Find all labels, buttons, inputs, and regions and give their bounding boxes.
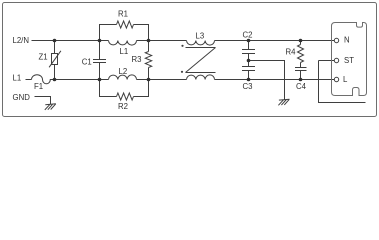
node C2/C3 mid — [247, 59, 251, 63]
junction dots — [53, 39, 303, 82]
svg-text:L1: L1 — [120, 47, 129, 56]
node C1 bottom — [98, 78, 102, 82]
choke L3 core lines — [186, 48, 216, 73]
ground (chassis, right) — [278, 99, 289, 105]
svg-text:C4: C4 — [296, 82, 307, 91]
resistor R3 (between rails) — [148, 41, 150, 80]
resistor R4 — [300, 41, 302, 68]
resistor R1 (top parallel loop) — [100, 25, 117, 41]
svg-text:L2/N: L2/N — [13, 36, 29, 45]
capacitor C3 — [242, 67, 255, 71]
svg-text:F1: F1 — [34, 82, 43, 91]
border frame — [3, 3, 377, 117]
wire top rail left — [32, 40, 109, 42]
svg-text:C2: C2 — [243, 31, 253, 40]
pin N — [334, 38, 338, 42]
resistor R2 (bottom parallel loop) — [100, 80, 117, 97]
svg-text:C3: C3 — [243, 82, 253, 91]
phase dot bottom — [181, 71, 183, 73]
wire bottom rail left — [53, 79, 109, 81]
node C3 bottom — [247, 78, 251, 82]
node R3 top — [147, 39, 151, 43]
svg-text:R1: R1 — [118, 10, 128, 19]
node C4 bottom — [299, 78, 303, 82]
svg-text:L2: L2 — [119, 67, 128, 76]
svg-text:Z1: Z1 — [39, 52, 48, 61]
pin L — [334, 77, 338, 81]
inductor L1 (coil on top rail) — [109, 41, 137, 46]
pin ST — [334, 58, 338, 62]
wire gnd — [35, 97, 51, 105]
varistor Z1 — [54, 41, 56, 80]
svg-text:N: N — [344, 35, 350, 44]
node R3 bottom — [147, 78, 151, 82]
svg-text:L: L — [343, 75, 348, 84]
node R4 top — [299, 39, 303, 43]
capacitor C4 — [295, 68, 307, 71]
svg-text:ST: ST — [344, 56, 354, 65]
connector (IEC inlet) outline — [332, 23, 367, 96]
phase dot top — [181, 45, 183, 47]
wire mid to ground — [249, 61, 285, 100]
wire bottom rail right — [215, 79, 335, 81]
capacitor C2 — [248, 41, 250, 80]
wire top rail mid — [137, 40, 187, 42]
svg-text:R4: R4 — [286, 48, 297, 57]
node C2 top — [247, 39, 251, 43]
wire bottom rail mid — [137, 79, 187, 81]
node Z1 bottom / F1 — [53, 78, 57, 82]
node Z1 top — [53, 39, 57, 43]
svg-text:R2: R2 — [118, 102, 128, 111]
svg-text:R3: R3 — [132, 55, 142, 64]
choke L3 bottom coil — [187, 75, 215, 80]
svg-text:L3: L3 — [196, 32, 205, 41]
choke L3 top coil — [187, 41, 215, 46]
svg-text:C1: C1 — [82, 58, 92, 67]
inductor L2 (coil on bottom rail) — [109, 75, 137, 80]
svg-text:L1: L1 — [13, 74, 22, 83]
node C1 top — [98, 39, 102, 43]
wire top rail right — [215, 40, 335, 42]
svg-text:GND: GND — [13, 93, 31, 102]
fuse F1 — [32, 75, 53, 84]
capacitor C1 — [99, 41, 101, 80]
wire bottom left stub — [26, 79, 32, 81]
wire ST line — [319, 61, 366, 103]
ground (chassis, left) — [45, 104, 56, 110]
